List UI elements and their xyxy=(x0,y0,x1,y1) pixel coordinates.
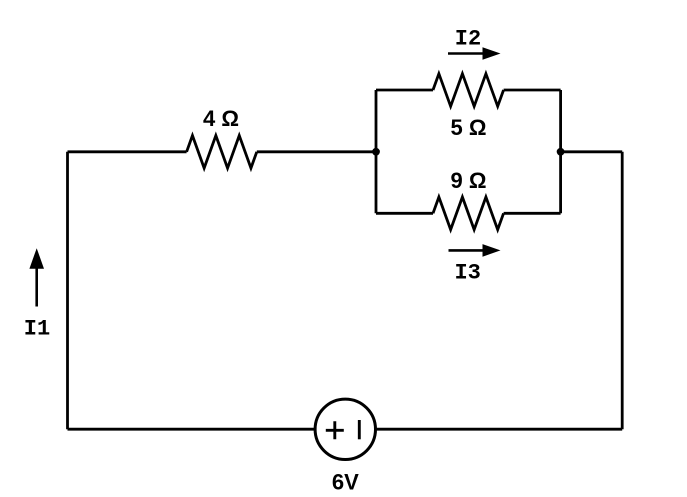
wire top branch right xyxy=(504,89,561,92)
arrow I3 head xyxy=(483,244,501,257)
wire parallel left vertical xyxy=(375,90,378,213)
node A left junction xyxy=(372,148,380,156)
svg-text:4 Ω: 4 Ω xyxy=(203,106,239,131)
resistor R2 5ohm xyxy=(433,74,504,107)
wire top branch left xyxy=(376,89,433,92)
wire right node to corner xyxy=(561,150,623,153)
wire bottom left segment xyxy=(68,428,315,431)
node B right junction xyxy=(557,148,565,156)
resistor R1 4ohm xyxy=(187,136,257,169)
svg-text:I3: I3 xyxy=(454,260,480,285)
svg-text:5 Ω: 5 Ω xyxy=(451,115,487,140)
arrow I3 shaft xyxy=(449,249,485,252)
svg-text:I2: I2 xyxy=(455,27,481,52)
arrow I2 shaft xyxy=(448,52,484,55)
wire bottom branch left xyxy=(376,212,433,215)
wire to left node xyxy=(257,150,376,153)
voltage source V1 minus bar xyxy=(358,420,361,439)
wire parallel right vertical xyxy=(559,90,562,213)
voltage source V1 plus sign xyxy=(326,421,344,439)
arrow I2 head xyxy=(483,47,501,60)
wire right vertical xyxy=(621,152,624,429)
resistor R3 9ohm xyxy=(433,197,504,230)
wire left vertical xyxy=(66,152,69,429)
voltage source V1 circle xyxy=(315,399,375,459)
arrow I1 shaft xyxy=(35,267,38,307)
svg-text:6V: 6V xyxy=(332,469,359,494)
svg-text:9 Ω: 9 Ω xyxy=(451,168,487,193)
svg-text:I1: I1 xyxy=(24,317,50,342)
wire bottom right segment xyxy=(376,428,622,431)
wire top-left segment xyxy=(68,150,187,153)
wire bottom branch right xyxy=(504,212,561,215)
arrow I1 head xyxy=(29,248,44,269)
